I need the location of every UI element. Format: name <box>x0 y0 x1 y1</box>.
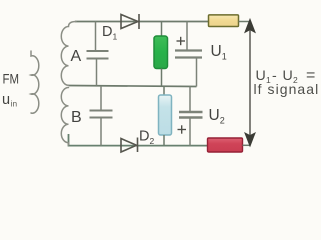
capacitor U2 (electrolytic, + down) <box>179 87 203 146</box>
resistor R2 (cyan) <box>163 86 165 95</box>
wire middle rail <box>69 86 197 87</box>
transformer primary L1 <box>31 51 39 113</box>
svg-text:u: u <box>2 92 10 108</box>
svg-text:FM: FM <box>3 71 20 87</box>
measurement arrow line <box>249 27 251 139</box>
plus sign U1 <box>177 37 186 45</box>
wire red box to arrow <box>243 144 250 146</box>
output terminal top (yellow box) <box>209 15 239 27</box>
capacitor U1 (electrolytic, + up) <box>175 22 202 87</box>
output terminal bottom (red box) <box>208 138 243 152</box>
diode D2 <box>121 138 138 153</box>
wire bottom rail <box>69 134 209 146</box>
coil B (secondary lower) <box>61 88 68 146</box>
arrowhead up <box>245 19 255 33</box>
capacitor CB (across coil B) <box>90 86 113 146</box>
wire yellow box to arrow <box>239 21 250 23</box>
diode D1 <box>121 14 139 29</box>
svg-text:B: B <box>71 109 82 126</box>
wire top rail <box>75 21 209 23</box>
svg-text:in: in <box>11 100 18 109</box>
capacitor CA (across coil A) <box>87 22 109 86</box>
coil A (secondary upper) <box>61 22 76 86</box>
resistor R1 (green) <box>161 22 163 37</box>
plus sign U2 <box>178 125 187 133</box>
svg-text:A: A <box>71 48 82 65</box>
svg-text:lf signaal: lf signaal <box>254 81 320 97</box>
arrowhead down <box>245 133 255 147</box>
